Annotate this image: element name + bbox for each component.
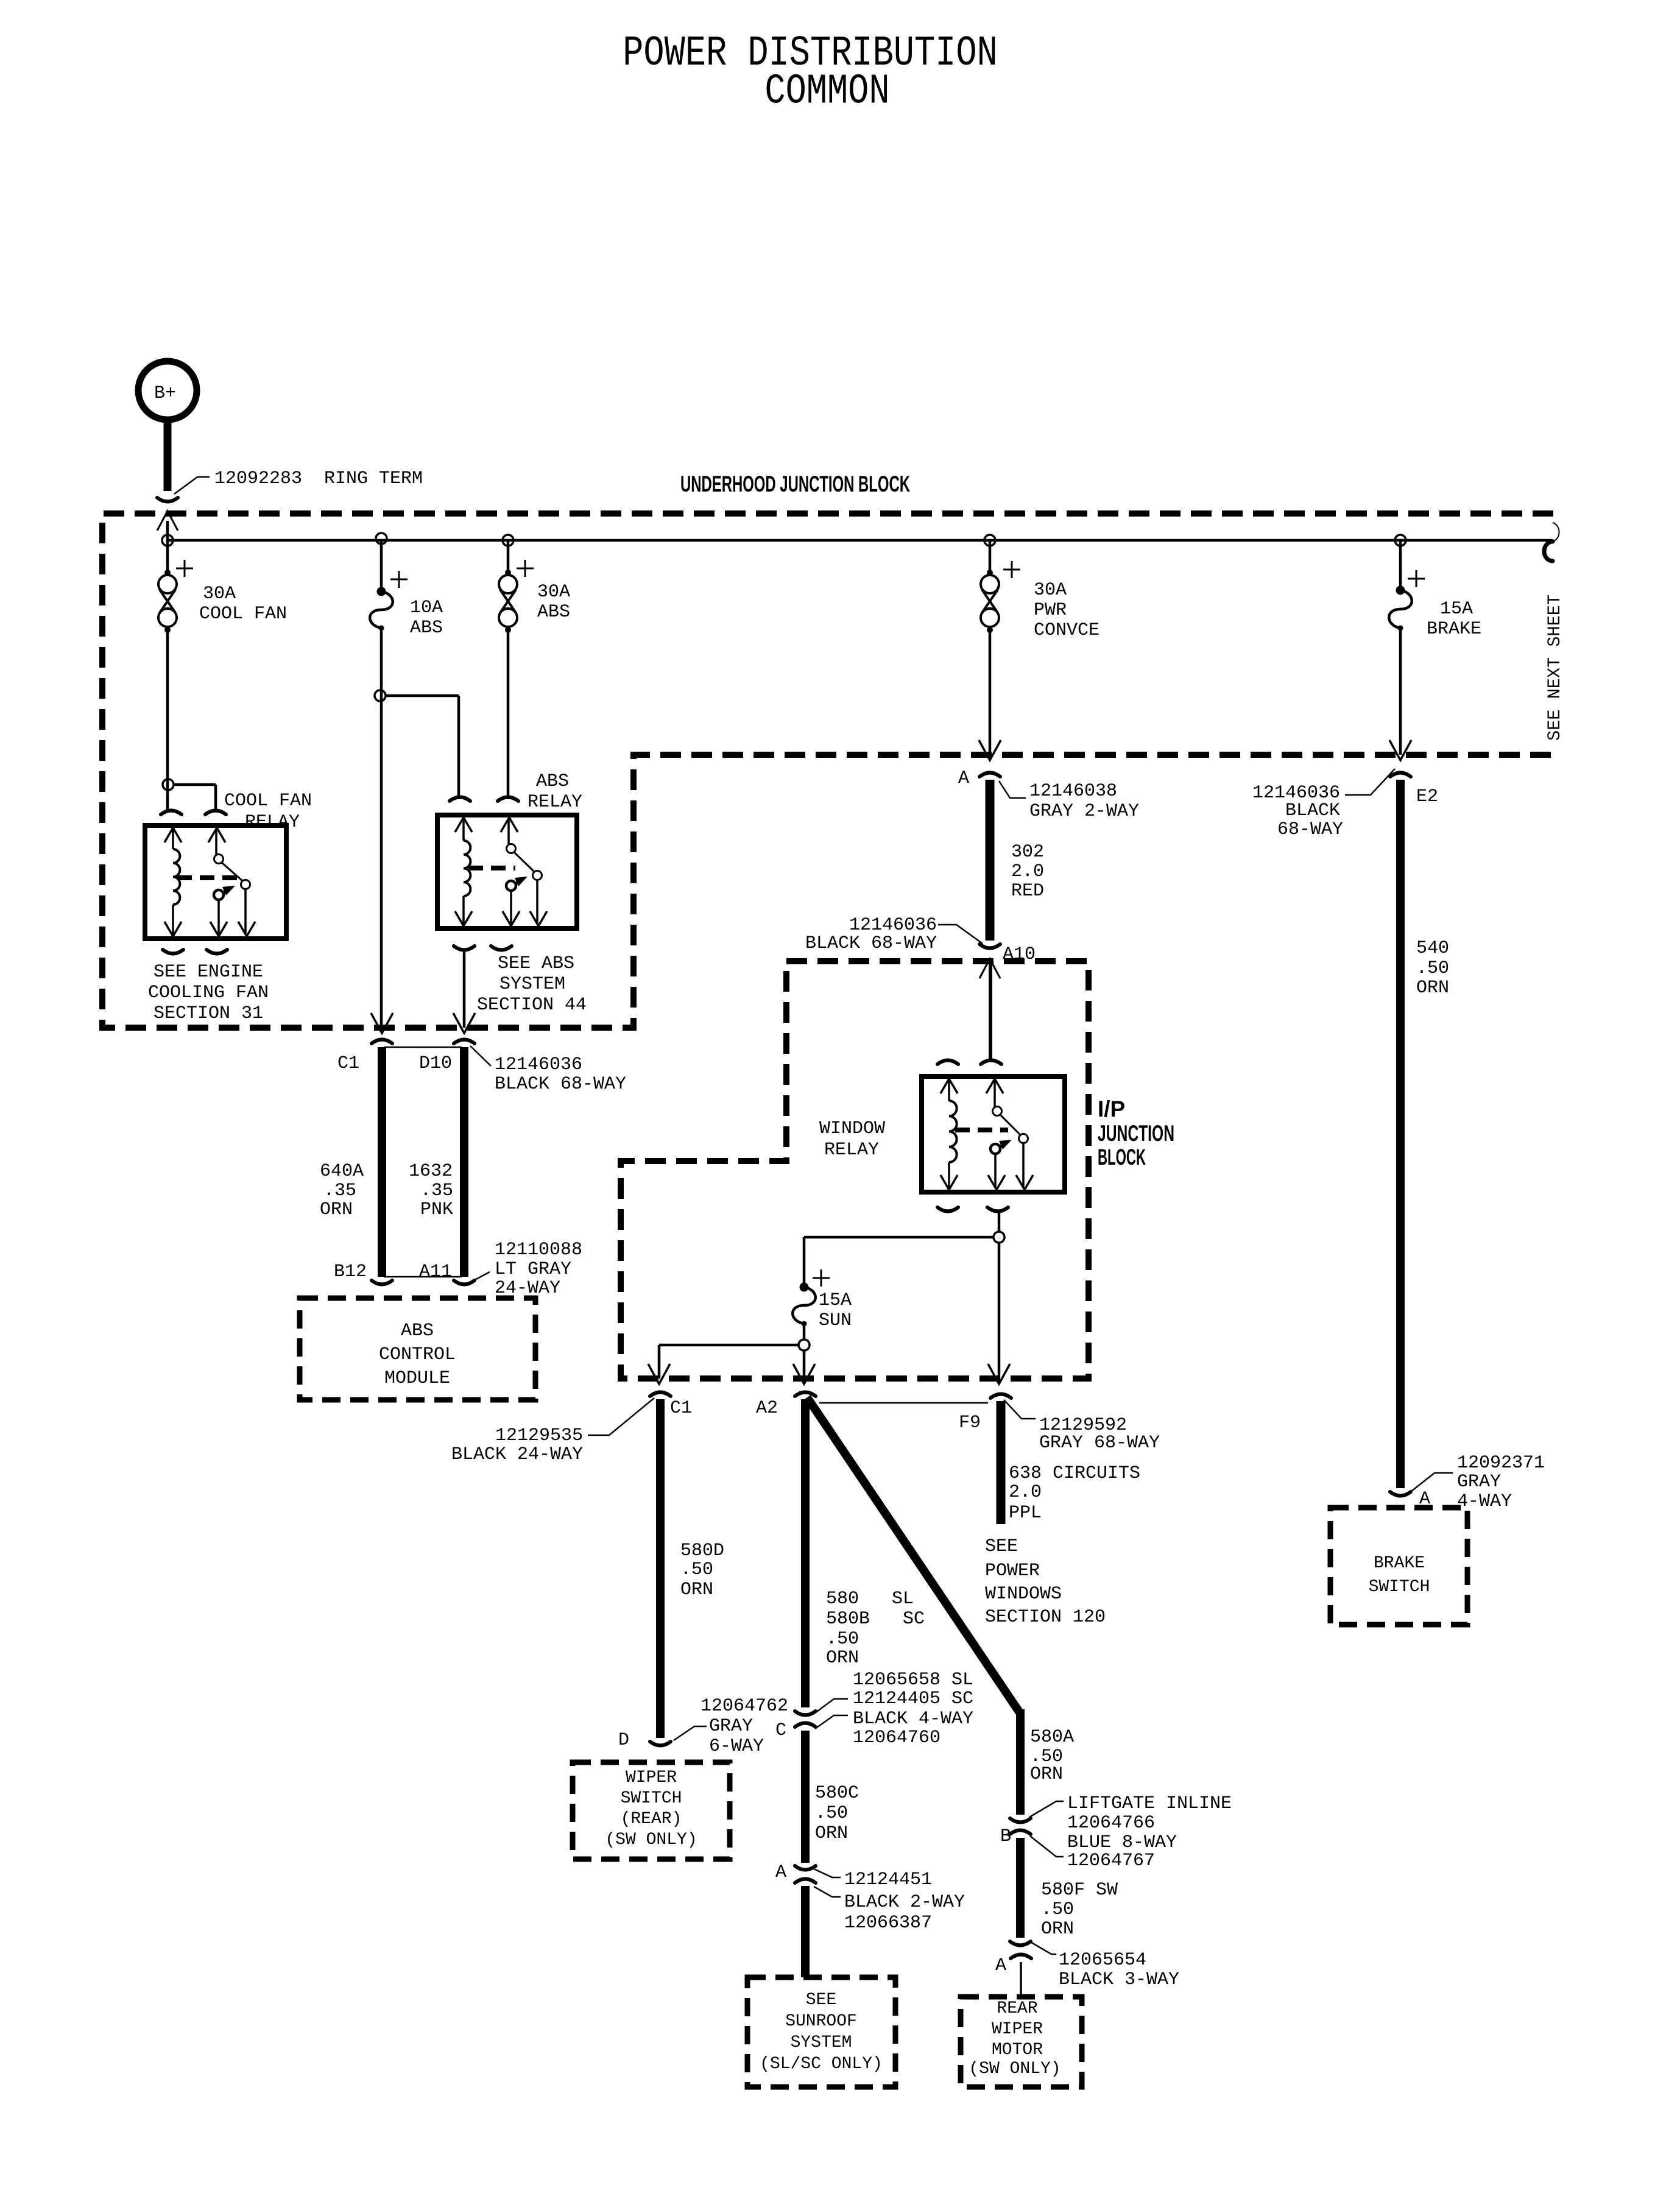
- wire to sunroof system: [801, 1886, 810, 1977]
- label C1 ip pin: [670, 1398, 692, 1419]
- svg-text:MODULE: MODULE: [384, 1368, 450, 1389]
- svg-text:I/P: I/P: [1098, 1096, 1125, 1121]
- label UNDERHOOD JUNCTION BLOCK: [680, 471, 910, 496]
- svg-text:RELAY: RELAY: [824, 1140, 879, 1160]
- svg-text:SYSTEM: SYSTEM: [791, 2033, 852, 2052]
- svg-text:POWER: POWER: [985, 1561, 1040, 1581]
- svg-text:ORN: ORN: [1416, 978, 1449, 998]
- label F9 pin: [959, 1413, 981, 1433]
- svg-text:30A: 30A: [203, 584, 236, 604]
- node sun output: [799, 1340, 810, 1350]
- wire abs relay to D10: [463, 950, 466, 1028]
- connector cup A11: [454, 1280, 475, 1285]
- node bus tap 30A abs: [503, 535, 514, 546]
- svg-text:BRAKE: BRAKE: [1427, 619, 1481, 640]
- label ABS CONTROL MODULE: [379, 1321, 456, 1389]
- svg-text:REAR: REAR: [997, 1999, 1037, 2018]
- label 580C .50 ORN: [815, 1783, 859, 1844]
- label WINDOW RELAY: [819, 1118, 885, 1160]
- svg-text:WIPER: WIPER: [626, 1768, 677, 1787]
- node bus tap brake: [1395, 535, 1406, 546]
- wire pwr convce to block edge: [989, 630, 992, 755]
- label 580A .50 ORN: [1030, 1727, 1074, 1785]
- connector cavity cool fan relay bottom right: [206, 950, 227, 954]
- svg-text:SEE: SEE: [806, 1991, 836, 2010]
- label WIPER SWITCH REAR SW ONLY: [605, 1768, 697, 1849]
- label B pin: [1000, 1826, 1011, 1847]
- wiper switch box: [573, 1762, 730, 1859]
- svg-text:RELAY: RELAY: [528, 792, 582, 813]
- label SEE ABS SYSTEM SECTION 44: [477, 953, 587, 1015]
- abs control module box: [300, 1298, 535, 1400]
- inline connector C lower cup: [795, 1723, 816, 1728]
- svg-text:BLACK 68-WAY: BLACK 68-WAY: [805, 933, 937, 954]
- label I/P JUNCTION BLOCK: [1098, 1096, 1174, 1170]
- node cool fan branch: [163, 779, 174, 790]
- label 12110088 LT GRAY 24-WAY: [471, 1240, 582, 1299]
- svg-text:.50: .50: [680, 1559, 713, 1580]
- svg-text:12064762: 12064762: [701, 1696, 788, 1717]
- svg-text:GRAY 2-WAY: GRAY 2-WAY: [1029, 801, 1139, 822]
- connector cavity window relay bottom left: [937, 1207, 958, 1212]
- label A pin: [958, 768, 969, 789]
- connector cup B12: [372, 1280, 392, 1285]
- label 1632 .35 PNK: [409, 1161, 453, 1220]
- svg-text:SWITCH: SWITCH: [1369, 1578, 1430, 1597]
- connector cavity window relay top left: [937, 1061, 958, 1065]
- svg-text:A: A: [995, 1955, 1006, 1976]
- label D pin: [618, 1730, 629, 1751]
- relay coil window: [941, 1079, 958, 1190]
- svg-text:COOL FAN: COOL FAN: [224, 791, 312, 811]
- svg-text:68-WAY: 68-WAY: [1277, 819, 1343, 840]
- svg-text:CONVCE: CONVCE: [1034, 620, 1099, 641]
- tie line B12 A11 connector: [384, 1276, 462, 1278]
- svg-text:12110088: 12110088: [495, 1240, 582, 1260]
- svg-text:.35: .35: [323, 1181, 356, 1201]
- svg-text:LIFTGATE INLINE: LIFTGATE INLINE: [1067, 1793, 1232, 1814]
- svg-text:580C: 580C: [815, 1783, 859, 1804]
- svg-text:580B SC: 580B SC: [826, 1609, 925, 1629]
- svg-text:ORN: ORN: [320, 1199, 353, 1220]
- svg-text:580A: 580A: [1030, 1727, 1074, 1748]
- label B12 pin: [334, 1262, 367, 1282]
- label 10A ABS: [410, 598, 443, 638]
- svg-text:15A: 15A: [1440, 599, 1473, 620]
- svg-text:ABS: ABS: [410, 618, 443, 638]
- circuit breaker 15A BRAKE: [1389, 570, 1425, 631]
- svg-text:12092371: 12092371: [1457, 1453, 1545, 1474]
- svg-text:.35: .35: [420, 1181, 453, 1201]
- svg-text:SWITCH: SWITCH: [621, 1789, 682, 1808]
- wire A10 to window relay: [989, 960, 992, 1061]
- svg-text:12124405 SC: 12124405 SC: [853, 1689, 973, 1709]
- label A2 ip pin: [756, 1398, 778, 1419]
- node bus tap 10A abs: [376, 533, 387, 544]
- svg-text:COMMON: COMMON: [764, 68, 889, 116]
- wire B+ to ring terminal: [164, 420, 172, 491]
- svg-text:540: 540: [1416, 938, 1449, 959]
- inline connector B lower cup: [1010, 1830, 1031, 1835]
- inline connector A upper cup: [795, 1866, 816, 1870]
- connector cup F9: [990, 1394, 1011, 1399]
- svg-text:A: A: [775, 1862, 786, 1883]
- bus wire: [168, 539, 1553, 542]
- svg-text:GRAY: GRAY: [709, 1716, 753, 1737]
- svg-text:LT GRAY: LT GRAY: [495, 1259, 571, 1280]
- svg-text:12064767: 12064767: [1067, 1851, 1155, 1871]
- connector cavity abs relay top left: [450, 797, 470, 802]
- svg-text:A11: A11: [419, 1262, 452, 1282]
- label A pin brake: [1419, 1489, 1430, 1509]
- svg-text:ABS: ABS: [536, 771, 569, 792]
- fuse 30A ABS: [499, 560, 534, 633]
- inline connector A rear wiper cup: [1011, 1955, 1031, 1959]
- wire 638 PPL: [997, 1401, 1006, 1524]
- battery terminal B+: [138, 361, 197, 420]
- wire 580A diagonal: [807, 1397, 1020, 1714]
- continuation hook to next sheet: [1544, 523, 1559, 561]
- svg-text:ORN: ORN: [680, 1580, 713, 1600]
- label D10 pin: [419, 1053, 452, 1074]
- node 10A abs branch: [375, 690, 386, 701]
- svg-text:12146036: 12146036: [849, 915, 937, 936]
- wire 580A vertical: [1016, 1709, 1025, 1815]
- svg-text:(SW ONLY): (SW ONLY): [969, 2060, 1061, 2078]
- arrow C1 ip exit: [648, 1364, 670, 1384]
- wire A2 down: [803, 1350, 806, 1379]
- label 12146036 BLACK 68-WAY mid: [805, 915, 983, 954]
- svg-text:.50: .50: [826, 1629, 859, 1650]
- svg-text:ABS: ABS: [401, 1321, 434, 1341]
- svg-text:GRAY: GRAY: [1457, 1472, 1501, 1492]
- label 302 2.0 RED: [1011, 842, 1044, 902]
- svg-text:4-WAY: 4-WAY: [1457, 1491, 1512, 1512]
- svg-text:302: 302: [1011, 842, 1044, 863]
- node bus tap cool fan: [162, 535, 173, 546]
- label 12146038 GRAY 2-WAY: [999, 781, 1139, 822]
- svg-text:C: C: [775, 1720, 786, 1741]
- connector cup A10: [979, 944, 1000, 948]
- svg-text:BLACK 68-WAY: BLACK 68-WAY: [495, 1074, 626, 1095]
- label 12124451 BLACK 2-WAY 12066387: [814, 1869, 965, 1933]
- svg-text:SEE NEXT SHEET: SEE NEXT SHEET: [1545, 595, 1565, 741]
- wire 30A abs fuse to relay: [507, 630, 510, 799]
- label 12064762 GRAY 6-WAY: [674, 1696, 788, 1757]
- wire B+ stub to bus: [166, 521, 169, 540]
- label 30A COOL FAN: [199, 584, 287, 624]
- wire 580F SW: [1016, 1838, 1025, 1938]
- inline connector B upper cup: [1010, 1818, 1031, 1823]
- connector cavity cool fan relay top right: [205, 811, 226, 815]
- svg-text:580 SL: 580 SL: [826, 1589, 914, 1609]
- connector cup D wiper: [650, 1742, 671, 1746]
- connector cavity window relay bottom right: [987, 1207, 1008, 1212]
- label 638 CIRCUITS 2.0 PPL: [1009, 1463, 1140, 1523]
- svg-text:ORN: ORN: [815, 1823, 848, 1844]
- svg-text:SYSTEM: SYSTEM: [499, 974, 565, 995]
- arrow D10 exit: [453, 1013, 475, 1033]
- svg-text:BLACK 2-WAY: BLACK 2-WAY: [844, 1892, 965, 1913]
- svg-text:SEE ABS: SEE ABS: [498, 953, 574, 974]
- svg-text:SEE ENGINE: SEE ENGINE: [154, 962, 263, 983]
- relay coil cool fan: [164, 828, 182, 936]
- wire bus to fuse pwr convce: [989, 540, 992, 573]
- relay dashed link cool fan: [177, 875, 239, 880]
- connector cavity abs relay top right: [498, 797, 518, 802]
- svg-text:6-WAY: 6-WAY: [709, 1736, 764, 1757]
- svg-text:C1: C1: [670, 1398, 692, 1419]
- svg-text:(REAR): (REAR): [621, 1810, 682, 1829]
- label 12092371 GRAY 4-WAY: [1408, 1453, 1545, 1512]
- label SEE SUNROOF SYSTEM SL/SC ONLY: [760, 1991, 883, 2074]
- arrow E2 exit: [1389, 740, 1411, 760]
- label C pin: [775, 1720, 786, 1741]
- svg-text:MOTOR: MOTOR: [992, 2041, 1043, 2060]
- label 15A BRAKE: [1427, 599, 1481, 640]
- svg-text:BLUE 8-WAY: BLUE 8-WAY: [1067, 1832, 1177, 1853]
- svg-text:D: D: [618, 1730, 629, 1751]
- svg-text:E2: E2: [1416, 786, 1438, 807]
- label 30A ABS: [537, 582, 570, 623]
- label 580F SW .50 ORN: [1041, 1880, 1118, 1940]
- wire node to C1 drop: [659, 1345, 799, 1379]
- rear wiper motor box: [961, 1997, 1082, 2087]
- node bus tap pwr convce: [984, 535, 995, 546]
- arrow A2 ip exit: [793, 1364, 815, 1384]
- tie line C1 D10 connector: [384, 1047, 462, 1048]
- label 540 .50 ORN: [1416, 938, 1449, 998]
- label A10 pin: [1003, 944, 1036, 965]
- svg-text:ORN: ORN: [1030, 1764, 1063, 1785]
- svg-text:30A: 30A: [537, 582, 570, 602]
- label ABS RELAY: [528, 771, 582, 813]
- wire bus to fuse cool fan: [166, 540, 169, 573]
- svg-text:PWR: PWR: [1034, 600, 1067, 621]
- svg-text:JUNCTION: JUNCTION: [1098, 1121, 1174, 1146]
- svg-text:30A: 30A: [1034, 580, 1067, 601]
- svg-text:12064760: 12064760: [853, 1728, 941, 1748]
- svg-text:638 CIRCUITS: 638 CIRCUITS: [1009, 1463, 1140, 1484]
- connector cavity window relay top right: [981, 1061, 1001, 1065]
- relay coil abs: [455, 817, 472, 926]
- relay box abs: [437, 815, 577, 928]
- underhood junction block outline: [102, 514, 1553, 1028]
- label 12129535 BLACK 24-WAY: [451, 1398, 654, 1465]
- wire 10A abs down to C1: [380, 628, 383, 1028]
- connector cavity cool fan relay bottom left: [163, 950, 183, 954]
- svg-text:15A: 15A: [819, 1290, 852, 1311]
- wire to rear wiper motor: [1020, 1962, 1022, 1997]
- svg-text:SEE: SEE: [985, 1536, 1018, 1557]
- label 15A SUN: [819, 1290, 852, 1331]
- wire bus to breaker brake: [1399, 540, 1402, 590]
- arrow F9 ip exit: [988, 1364, 1010, 1384]
- svg-text:12065658 SL: 12065658 SL: [853, 1670, 973, 1690]
- label 12146036 BLACK 68-WAY left: [470, 1046, 626, 1095]
- label A pin sunroof: [775, 1862, 786, 1883]
- svg-text:12066387: 12066387: [844, 1913, 932, 1933]
- svg-text:B+: B+: [154, 383, 176, 404]
- connector cavity cool fan relay top left: [161, 811, 182, 815]
- label 12129592 GRAY 68-WAY: [1004, 1400, 1160, 1453]
- svg-text:BLACK: BLACK: [1285, 800, 1340, 821]
- label LIFTGATE INLINE 12064766 BLUE 8-WAY 12064767: [1029, 1793, 1232, 1871]
- circuit breaker 15A SUN: [792, 1269, 830, 1327]
- relay switch abs: [501, 817, 547, 926]
- svg-text:12064766: 12064766: [1067, 1813, 1155, 1834]
- label COOL FAN RELAY: [224, 791, 312, 833]
- wire breaker to A2 node: [803, 1324, 806, 1340]
- svg-text:BLACK 4-WAY: BLACK 4-WAY: [853, 1709, 973, 1729]
- svg-text:(SL/SC ONLY): (SL/SC ONLY): [760, 2055, 883, 2074]
- wire cool fan fuse to relay: [166, 630, 169, 810]
- connector cup brake A: [1390, 1492, 1411, 1496]
- svg-text:(SW ONLY): (SW ONLY): [605, 1830, 697, 1849]
- circuit breaker 10A ABS: [370, 571, 408, 631]
- label C1 pin: [337, 1053, 359, 1074]
- wire window relay to F9 node: [998, 1210, 1001, 1232]
- label SEE NEXT SHEET: [1545, 595, 1565, 741]
- wire node to sun breaker: [804, 1237, 994, 1283]
- svg-text:A2: A2: [756, 1398, 778, 1419]
- svg-text:BRAKE: BRAKE: [1374, 1554, 1425, 1573]
- svg-text:GRAY 68-WAY: GRAY 68-WAY: [1039, 1433, 1160, 1453]
- svg-text:UNDERHOOD JUNCTION BLOCK: UNDERHOOD JUNCTION BLOCK: [680, 471, 910, 496]
- label 30A PWR CONVCE: [1034, 580, 1099, 641]
- svg-text:12146036: 12146036: [495, 1054, 582, 1075]
- label A11 pin: [419, 1262, 452, 1282]
- svg-text:SECTION 31: SECTION 31: [154, 1003, 263, 1024]
- svg-text:SECTION 120: SECTION 120: [985, 1607, 1106, 1628]
- arrow A10 into ip block: [979, 959, 1000, 978]
- svg-text:BLACK 24-WAY: BLACK 24-WAY: [451, 1444, 583, 1465]
- label 12065654 BLACK 3-WAY: [1029, 1941, 1179, 1990]
- svg-text:BLOCK: BLOCK: [1098, 1145, 1146, 1170]
- svg-text:COOL FAN: COOL FAN: [199, 604, 287, 624]
- svg-text:12146038: 12146038: [1029, 781, 1117, 802]
- relay switch window: [986, 1079, 1033, 1190]
- svg-text:D10: D10: [419, 1053, 452, 1074]
- wire 302 RED: [986, 780, 995, 941]
- label 12092283 RING TERM: [174, 468, 423, 494]
- ip junction block outline: [621, 961, 1089, 1379]
- relay dashed link abs: [468, 866, 515, 870]
- svg-text:.50: .50: [1041, 1899, 1074, 1920]
- wire 640A ORN: [378, 1047, 386, 1277]
- svg-text:SECTION 44: SECTION 44: [477, 995, 587, 1015]
- label 580D .50 ORN: [680, 1541, 724, 1600]
- svg-text:BLACK 3-WAY: BLACK 3-WAY: [1059, 1969, 1179, 1990]
- wire 580C ORN: [801, 1731, 810, 1863]
- connector cup ring terminal: [157, 498, 178, 502]
- svg-text:SUNROOF: SUNROOF: [785, 2012, 857, 2031]
- svg-text:B: B: [1000, 1826, 1011, 1847]
- wire 580D ORN: [656, 1399, 665, 1738]
- svg-text:RELAY: RELAY: [245, 812, 300, 833]
- svg-text:SUN: SUN: [819, 1310, 852, 1331]
- svg-text:PNK: PNK: [420, 1199, 453, 1220]
- svg-text:2.0: 2.0: [1009, 1482, 1042, 1503]
- svg-text:12129535: 12129535: [495, 1425, 583, 1446]
- connector cavity abs relay bottom left: [454, 946, 475, 950]
- label 580 580B ORN: [826, 1589, 925, 1668]
- svg-text:WIPER: WIPER: [992, 2020, 1043, 2039]
- label BRAKE SWITCH: [1369, 1554, 1430, 1597]
- connector cup C1: [372, 1040, 392, 1044]
- wire branch to abs relay coil: [385, 696, 459, 799]
- relay box window: [922, 1076, 1065, 1192]
- svg-text:.50: .50: [1416, 958, 1449, 979]
- wire brake to block edge: [1399, 628, 1402, 755]
- label 12065658 12124405 BLACK 4-WAY 12064760: [815, 1670, 973, 1748]
- fuse 30A PWR CONVCE: [981, 561, 1020, 633]
- svg-text:A: A: [958, 768, 969, 789]
- svg-text:ORN: ORN: [826, 1648, 859, 1668]
- relay switch cool fan: [208, 828, 255, 936]
- label 640A .35 ORN: [320, 1161, 364, 1220]
- sunroof system box: [747, 1977, 895, 2087]
- tie line A2 F9 connector: [819, 1402, 988, 1404]
- arrow A exit: [979, 740, 1001, 760]
- wire 540 ORN: [1396, 780, 1405, 1488]
- label SEE ENGINE COOLING FAN SECTION 31: [148, 962, 269, 1024]
- wire bus to breaker 10A abs: [380, 540, 383, 591]
- inline connector A lower cup: [795, 1879, 816, 1883]
- svg-text:.50: .50: [815, 1803, 848, 1824]
- connector cavity abs relay bottom right: [491, 946, 512, 950]
- title POWER DISTRIBUTION COMMON: [623, 30, 998, 116]
- node window relay output: [994, 1232, 1004, 1243]
- brake switch box: [1330, 1508, 1467, 1625]
- connector cup D10: [454, 1040, 475, 1044]
- connector cup E2: [1390, 773, 1411, 777]
- svg-text:580F SW: 580F SW: [1041, 1880, 1118, 1901]
- wire F9 down: [998, 1242, 1001, 1379]
- svg-text:640A: 640A: [320, 1161, 364, 1182]
- svg-text:ORN: ORN: [1041, 1919, 1074, 1940]
- arrow C1 exit: [371, 1013, 393, 1033]
- wire branch to cool fan relay switch: [173, 785, 216, 811]
- relay box cool fan: [145, 825, 286, 939]
- svg-text:12065654: 12065654: [1059, 1950, 1146, 1971]
- svg-text:12092283 RING TERM: 12092283 RING TERM: [214, 468, 423, 489]
- svg-text:2.0: 2.0: [1011, 861, 1044, 882]
- label SEE POWER WINDOWS SECTION 120: [985, 1536, 1106, 1628]
- svg-text:PPL: PPL: [1009, 1503, 1042, 1523]
- svg-text:10A: 10A: [410, 598, 443, 618]
- svg-text:CONTROL: CONTROL: [379, 1344, 456, 1365]
- svg-text:WINDOW: WINDOW: [819, 1118, 885, 1139]
- connector cup 580F end: [1010, 1941, 1031, 1946]
- label REAR WIPER MOTOR SW ONLY: [969, 1999, 1061, 2078]
- connector cup A2 ip: [795, 1393, 816, 1397]
- label 12146036 BLACK 68-WAY right: [1252, 769, 1395, 840]
- connector cup C1 ip: [650, 1393, 671, 1397]
- relay dashed link window: [955, 1128, 1008, 1132]
- wire 580 ORN upper: [801, 1399, 810, 1707]
- fuse 30A COOL FAN: [158, 560, 193, 633]
- arrow B+ into junction block: [157, 511, 178, 531]
- svg-text:1632: 1632: [409, 1161, 453, 1182]
- svg-text:WINDOWS: WINDOWS: [985, 1584, 1062, 1605]
- svg-text:RED: RED: [1011, 881, 1044, 902]
- svg-text:580D: 580D: [680, 1541, 724, 1561]
- wire 1632 PNK: [460, 1047, 468, 1277]
- inline connector C upper cup: [795, 1711, 816, 1715]
- svg-text:F9: F9: [959, 1413, 981, 1433]
- label A pin rear wiper: [995, 1955, 1006, 1976]
